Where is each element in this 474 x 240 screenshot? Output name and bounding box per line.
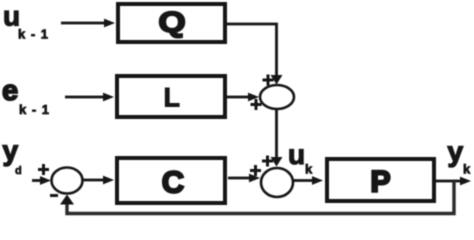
svg-text:k: k [463,162,471,177]
svg-text:Q: Q [158,6,185,39]
svg-text:u: u [288,139,305,170]
svg-text:k: k [305,162,313,177]
svg-text:P: P [370,166,390,199]
svg-text:y: y [3,135,19,166]
svg-text:e: e [2,75,18,107]
svg-text:d: d [15,165,22,177]
svg-text:L: L [163,83,180,113]
svg-text:k - 1: k - 1 [19,102,50,117]
svg-text:y: y [448,136,464,167]
svg-text:k - 1: k - 1 [18,27,49,42]
svg-text:C: C [162,164,184,199]
